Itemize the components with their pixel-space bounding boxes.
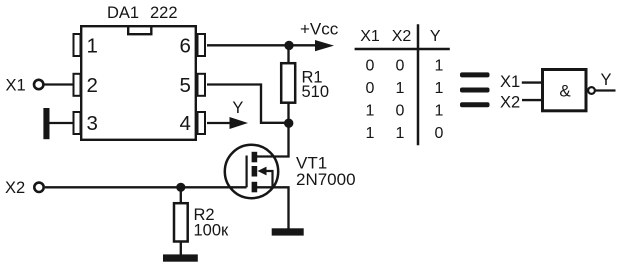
terminal X2 circle — [34, 183, 43, 192]
IC notch — [128, 26, 151, 34]
svg-text:1: 1 — [434, 103, 443, 120]
svg-text:DA1: DA1 — [107, 4, 139, 22]
IC DA1 body — [81, 26, 196, 140]
resistor R2 — [174, 203, 188, 241]
wire X1 to pin2 — [45, 83, 73, 85]
svg-text:1: 1 — [366, 103, 375, 120]
svg-text:2N7000: 2N7000 — [296, 170, 356, 189]
svg-text:&: & — [559, 82, 571, 101]
svg-text:4: 4 — [180, 112, 191, 135]
table horizontal line — [355, 48, 450, 50]
pin 3 box — [74, 112, 81, 134]
svg-text:6: 6 — [180, 34, 191, 57]
resistor R1 — [281, 63, 295, 102]
svg-text:510: 510 — [302, 83, 330, 101]
wire R1 bottom to lower node — [287, 103, 289, 123]
svg-text:Y: Y — [232, 99, 243, 117]
svg-text:X2: X2 — [500, 93, 520, 111]
wire Vcc node down to R1 — [287, 45, 289, 63]
junction dot below R1 — [284, 119, 293, 128]
wire R2 to ground — [180, 242, 182, 255]
wire X2 node down to R2 — [180, 187, 182, 203]
wire pin6 to +Vcc arrow — [207, 44, 316, 46]
wire chassis bar to pin3 — [50, 122, 73, 124]
logic gate box U1 — [543, 70, 587, 111]
svg-text:1: 1 — [434, 80, 443, 97]
svg-text:X1: X1 — [500, 73, 520, 91]
pin 6 box — [198, 34, 206, 56]
gate input wire X2 — [522, 99, 542, 101]
svg-text:+Vcc: +Vcc — [300, 20, 339, 39]
svg-text:0: 0 — [396, 58, 405, 75]
terminal X1 circle — [34, 80, 43, 89]
wire pin5 down to lower node — [207, 85, 285, 123]
svg-text:0: 0 — [366, 80, 375, 97]
gate input wire X1 — [522, 81, 542, 83]
VT1 gate line — [246, 156, 248, 188]
wire X2 to gate — [45, 186, 247, 188]
ground bar under R2 — [163, 254, 198, 261]
svg-text:X1: X1 — [360, 28, 380, 45]
svg-text:0: 0 — [396, 103, 405, 120]
VT1 body arrow head — [258, 167, 267, 176]
svg-text:X2: X2 — [392, 28, 412, 45]
junction dot Vcc node — [284, 41, 293, 50]
pin 5 box — [198, 74, 206, 96]
junction dot X2/R2 — [176, 183, 185, 192]
VT1 channel bar source — [252, 182, 258, 193]
pin 2 box — [74, 74, 81, 96]
gate output wire Y — [595, 89, 615, 91]
equivalence bar 3 — [460, 102, 490, 107]
svg-text:X2: X2 — [5, 179, 25, 197]
svg-text:1: 1 — [87, 34, 98, 57]
pin 1 box — [74, 34, 81, 56]
svg-text:222: 222 — [150, 4, 178, 22]
VT1 channel bar drain — [252, 152, 258, 163]
svg-text:5: 5 — [180, 74, 191, 97]
svg-text:1: 1 — [396, 80, 405, 97]
wire lower node to drain — [256, 123, 289, 157]
chassis bar at pin3 — [43, 108, 49, 139]
gate inversion bubble — [588, 87, 595, 94]
svg-text:1: 1 — [396, 125, 405, 142]
wire pin4 to Y arrow — [207, 122, 230, 124]
Y output arrow — [230, 117, 249, 129]
svg-text:100к: 100к — [194, 222, 230, 240]
svg-text:3: 3 — [87, 112, 98, 135]
svg-text:2: 2 — [87, 74, 98, 97]
equivalence bar 2 — [460, 88, 490, 93]
wire source to ground — [256, 187, 289, 228]
svg-text:0: 0 — [366, 58, 375, 75]
svg-text:1: 1 — [366, 125, 375, 142]
VT1 body arrow tail — [263, 171, 273, 187]
table vertical line — [417, 24, 420, 145]
svg-text:0: 0 — [434, 125, 443, 142]
transistor VT1 circle — [225, 145, 278, 198]
pin 4 box — [198, 112, 206, 134]
ground bar under VT1 source — [272, 228, 304, 235]
+Vcc arrow — [315, 40, 334, 51]
svg-text:1: 1 — [434, 58, 443, 75]
svg-text:Y: Y — [430, 28, 441, 45]
equivalence bar 1 — [460, 72, 490, 77]
svg-text:X1: X1 — [6, 77, 26, 95]
svg-text:Y: Y — [601, 71, 612, 89]
VT1 channel bar body — [252, 166, 258, 177]
